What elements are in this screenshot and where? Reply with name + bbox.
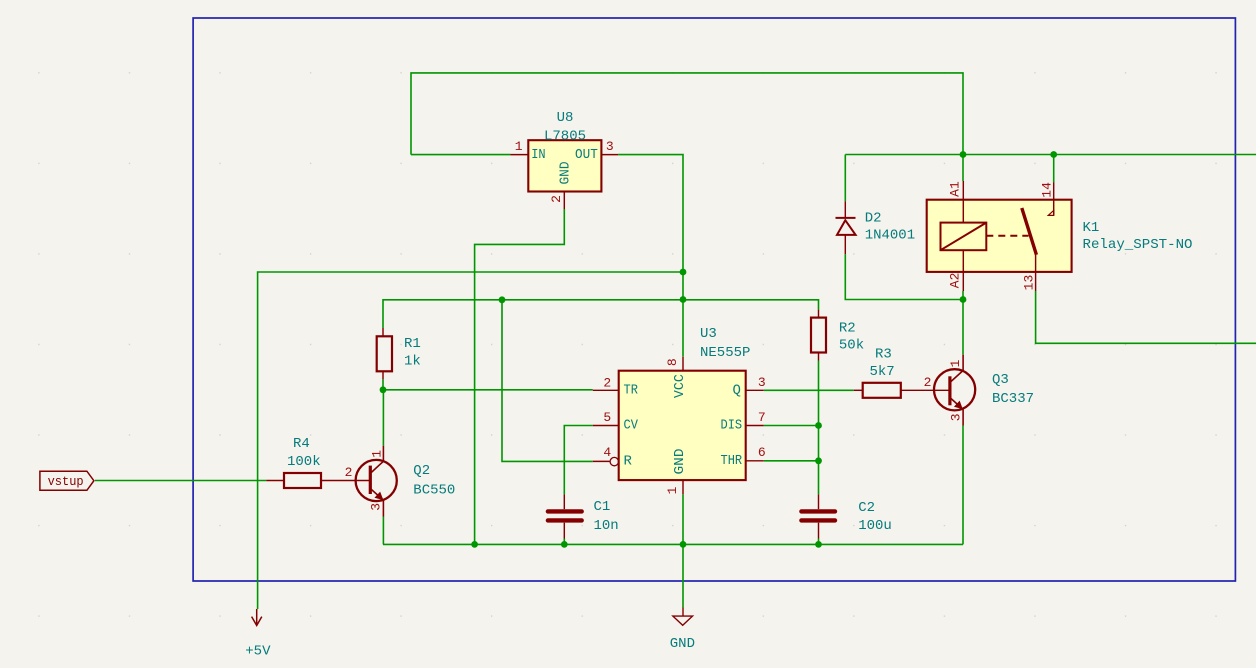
svg-text:R4: R4 bbox=[293, 436, 310, 452]
svg-text:6: 6 bbox=[758, 445, 766, 460]
svg-text:BC337: BC337 bbox=[992, 391, 1034, 407]
svg-text:100u: 100u bbox=[858, 518, 892, 534]
svg-text:K1: K1 bbox=[1083, 220, 1100, 236]
svg-text:7: 7 bbox=[758, 410, 766, 425]
svg-text:Relay_SPST-NO: Relay_SPST-NO bbox=[1083, 237, 1193, 253]
svg-text:R2: R2 bbox=[839, 321, 856, 337]
svg-text:100k: 100k bbox=[287, 454, 321, 470]
svg-text:D2: D2 bbox=[865, 210, 882, 226]
svg-text:A2: A2 bbox=[948, 273, 963, 289]
svg-text:OUT: OUT bbox=[575, 147, 598, 163]
svg-text:BC550: BC550 bbox=[413, 482, 455, 498]
svg-text:10n: 10n bbox=[594, 518, 619, 534]
svg-text:13: 13 bbox=[1022, 275, 1037, 291]
svg-text:1N4001: 1N4001 bbox=[865, 228, 915, 244]
svg-text:THR: THR bbox=[721, 453, 743, 469]
svg-text:CV: CV bbox=[624, 418, 639, 434]
svg-text:+5V: +5V bbox=[245, 644, 271, 660]
svg-text:1: 1 bbox=[948, 359, 963, 367]
svg-text:IN: IN bbox=[531, 147, 545, 163]
svg-text:R3: R3 bbox=[875, 347, 892, 363]
svg-text:Q3: Q3 bbox=[992, 372, 1009, 388]
svg-text:R1: R1 bbox=[404, 336, 421, 352]
svg-text:50k: 50k bbox=[839, 337, 864, 353]
svg-text:3: 3 bbox=[758, 375, 766, 390]
svg-text:1: 1 bbox=[370, 450, 385, 458]
svg-text:U3: U3 bbox=[700, 326, 717, 342]
svg-text:1: 1 bbox=[515, 139, 523, 154]
svg-text:GND: GND bbox=[672, 449, 688, 475]
svg-text:TR: TR bbox=[624, 382, 639, 398]
svg-text:VCC: VCC bbox=[672, 374, 688, 398]
svg-text:1: 1 bbox=[665, 486, 680, 494]
svg-text:DIS: DIS bbox=[721, 418, 743, 434]
svg-text:1k: 1k bbox=[404, 354, 421, 370]
svg-text:2: 2 bbox=[603, 376, 611, 391]
svg-text:R: R bbox=[624, 453, 633, 469]
svg-text:GND: GND bbox=[670, 636, 695, 652]
svg-text:A1: A1 bbox=[948, 181, 963, 197]
svg-text:U8: U8 bbox=[557, 110, 574, 126]
svg-text:3: 3 bbox=[949, 413, 964, 421]
svg-text:8: 8 bbox=[665, 358, 680, 366]
svg-text:14: 14 bbox=[1040, 182, 1055, 198]
svg-text:5: 5 bbox=[603, 410, 611, 425]
svg-text:C2: C2 bbox=[858, 500, 875, 516]
svg-text:2: 2 bbox=[924, 375, 932, 390]
svg-text:5k7: 5k7 bbox=[870, 364, 895, 380]
svg-text:vstup: vstup bbox=[48, 474, 84, 489]
svg-text:C1: C1 bbox=[594, 499, 611, 515]
svg-text:GND: GND bbox=[558, 162, 574, 185]
svg-text:4: 4 bbox=[603, 445, 611, 460]
svg-text:2: 2 bbox=[549, 195, 564, 203]
svg-text:L7805: L7805 bbox=[544, 128, 586, 144]
svg-text:3: 3 bbox=[369, 503, 384, 511]
svg-text:2: 2 bbox=[345, 465, 353, 480]
svg-text:Q: Q bbox=[732, 382, 740, 398]
svg-text:Q2: Q2 bbox=[413, 463, 430, 479]
svg-text:NE555P: NE555P bbox=[700, 345, 750, 361]
svg-text:3: 3 bbox=[606, 139, 614, 154]
